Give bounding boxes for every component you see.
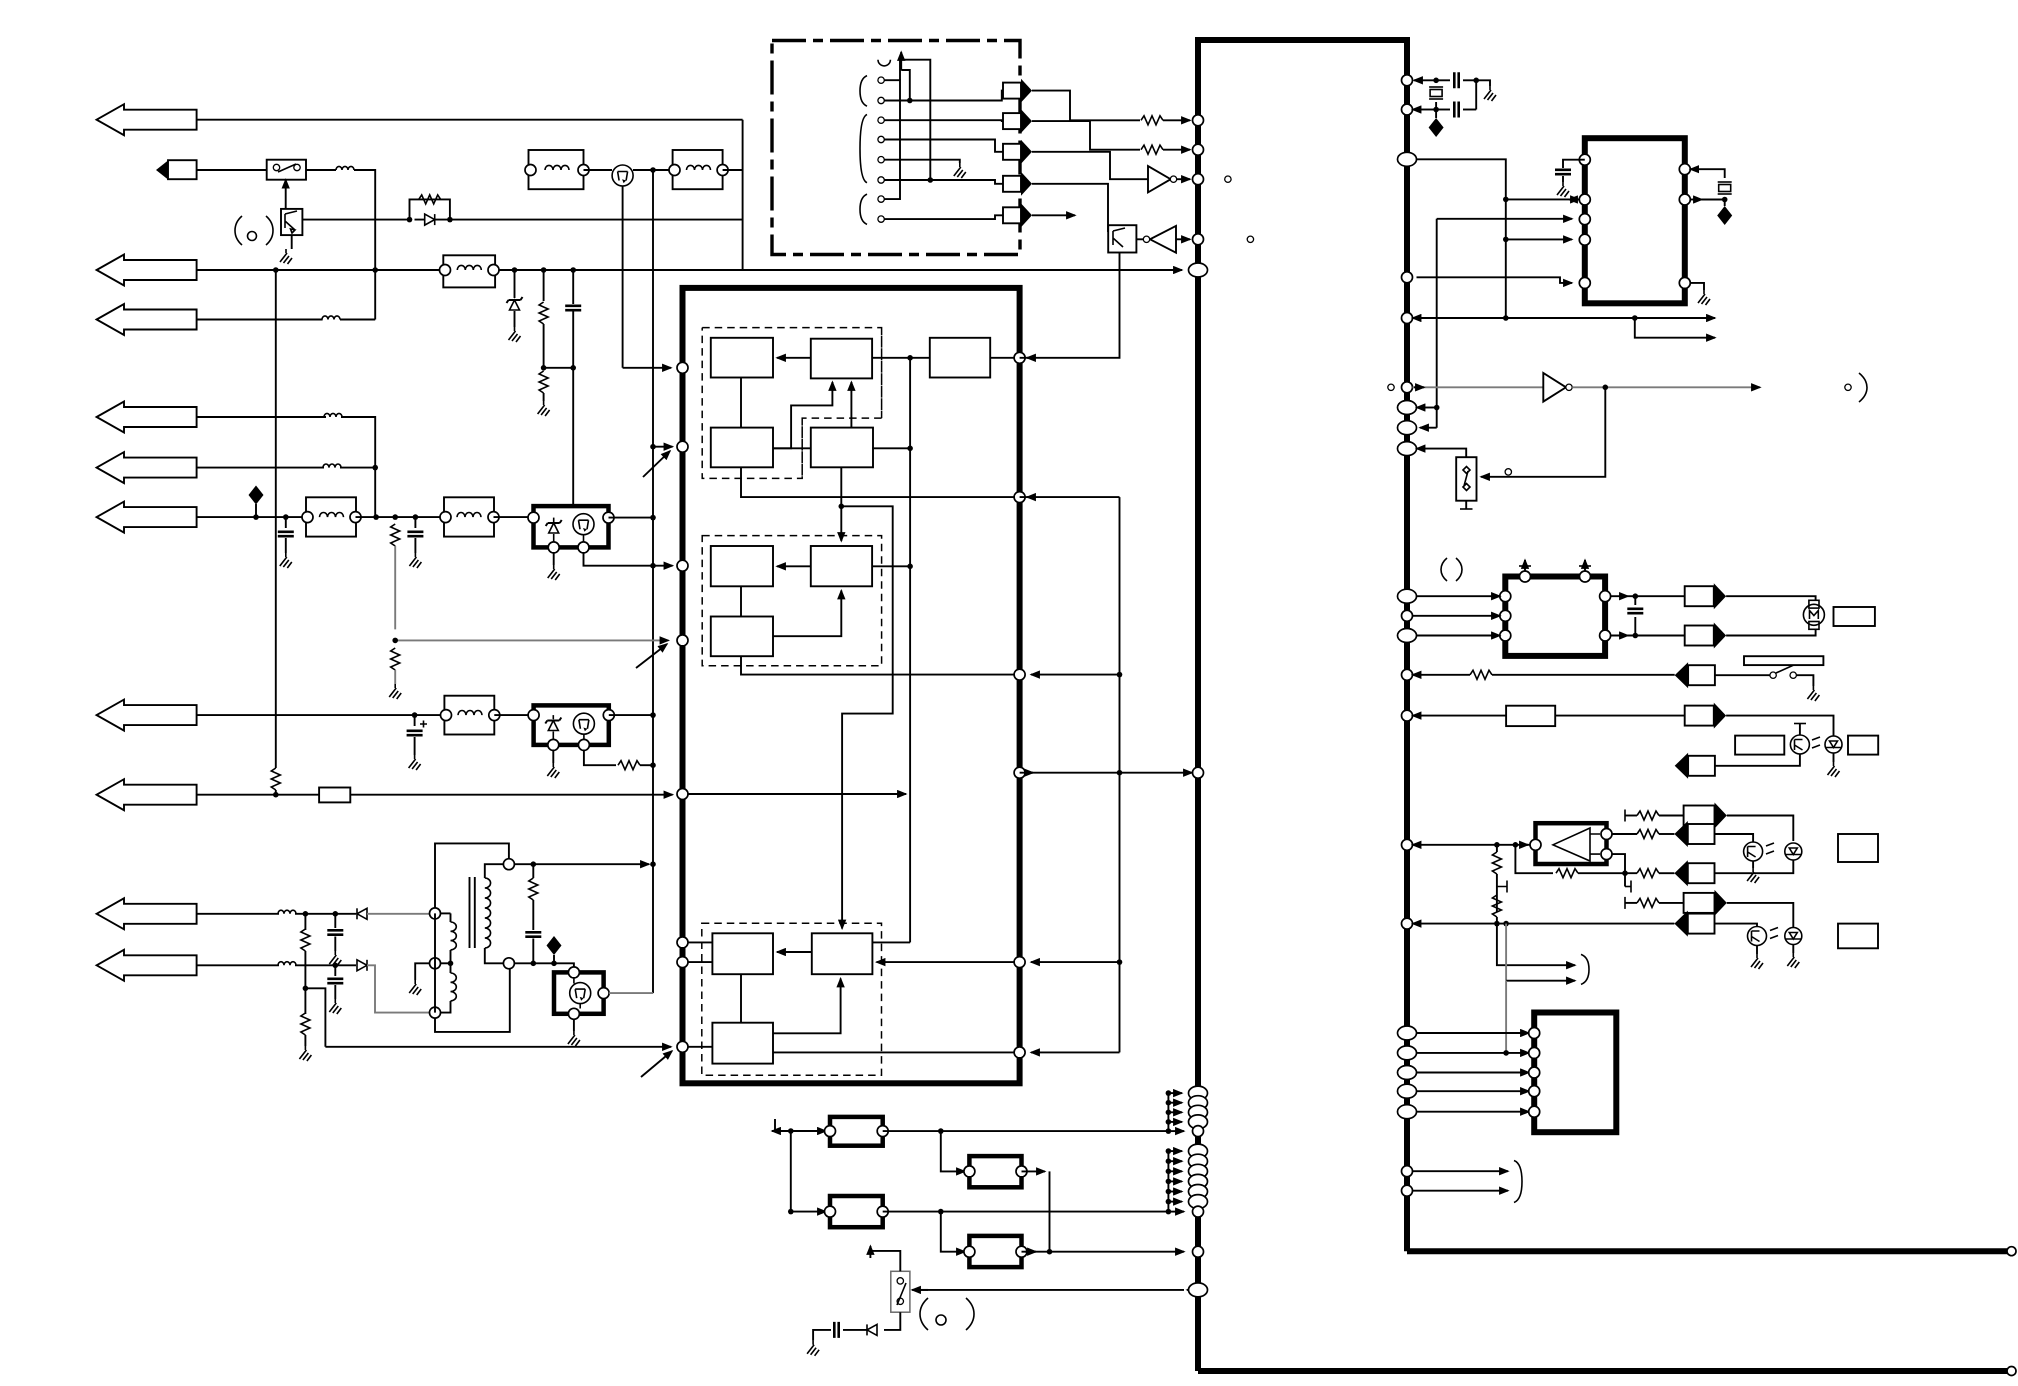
wire J3 row with inductor L2 — [197, 319, 323, 321]
connector arrow A4 (right) — [1685, 706, 1714, 726]
wire Q2 to junction x653 — [633, 169, 673, 171]
wire diode D1 to bus x742 — [450, 219, 743, 221]
diode D5 — [357, 908, 367, 919]
wire S2 top to supply tick — [870, 1251, 900, 1271]
line filter FL4 — [306, 497, 356, 536]
dashed group 2 boundary — [702, 536, 881, 666]
crystal X1 circuit — [1414, 79, 1436, 81]
divider chain x1497 — [1496, 845, 1498, 852]
primary coil 2 — [451, 973, 457, 1001]
U1 right pin 924 — [1402, 918, 1413, 929]
wire tuner arrow1 to IF resistor row — [1032, 91, 1140, 121]
wire pin4 out — [884, 140, 1003, 152]
cap C10 — [1436, 109, 1450, 111]
wire J5 row with inductor L4 — [197, 467, 324, 469]
block E — [930, 338, 990, 378]
capacitor C3 to ground — [414, 517, 416, 528]
right pin 772 — [1014, 767, 1025, 778]
cluster A branch 2 — [1168, 1092, 1182, 1094]
wire pin3 out — [884, 119, 1003, 122]
connector arrow M- — [1685, 626, 1714, 646]
left pin 447 — [677, 441, 688, 452]
connector arrow J5 — [97, 452, 197, 483]
tuner output arrow 1 — [1003, 83, 1021, 99]
comparator U9 box — [1536, 823, 1607, 864]
wire J6 luminance row — [197, 516, 306, 518]
transformer core — [470, 877, 475, 948]
transformer T1 primary pins — [430, 908, 441, 919]
connector pin 3 — [878, 117, 884, 123]
connector arrow M+ — [1685, 586, 1714, 606]
secondary coil — [485, 878, 491, 948]
wire channel to mid pin 962 — [1031, 961, 1120, 963]
label (o ) — [920, 1298, 928, 1330]
line filter FL6 — [444, 696, 494, 735]
wire J9 AC row — [197, 913, 279, 915]
right pin 674 — [1014, 669, 1025, 680]
dashed group 3 boundary — [702, 923, 882, 1075]
inductor L1 after switch — [306, 169, 336, 171]
dashed group 1 boundary — [702, 328, 881, 479]
U1 left pin 239 — [1193, 234, 1204, 245]
resistor R4 — [1141, 116, 1163, 125]
U6 left pin 199 — [1579, 194, 1590, 205]
wire tuner arrow5 short — [1032, 214, 1075, 216]
supply diamond marker — [249, 486, 264, 505]
wire K to J — [773, 979, 841, 1034]
wire node to Q5 top pin — [554, 963, 574, 967]
connector arrow J7 — [97, 700, 197, 731]
wire A3 to cassette switch S4 — [1715, 674, 1770, 676]
feedback row 873 — [1515, 845, 1553, 873]
wire D top to B — [850, 382, 852, 428]
U6 left pin 283 — [1579, 277, 1590, 288]
resistor R9 on rail x276 — [271, 768, 280, 790]
light arrows 3 — [1770, 928, 1778, 939]
switch S1 — [267, 160, 306, 180]
resistor R14 — [1556, 869, 1578, 878]
floating circle by S3 — [1505, 469, 1511, 475]
U1 right pin 1072 — [1398, 1066, 1417, 1080]
brace group 3 — [860, 194, 867, 224]
PT3 — [1748, 927, 1767, 946]
ground at C8 — [807, 1341, 819, 1356]
connector pin 6 — [878, 177, 884, 183]
left pin 794 — [677, 789, 688, 800]
wire B to A — [777, 357, 811, 359]
brace group 2 — [860, 115, 867, 183]
U6 left pin 240 — [1579, 234, 1590, 245]
wire I to left pins — [683, 942, 713, 962]
diode D7 — [867, 1324, 877, 1335]
U1 right pin 716 — [1402, 710, 1413, 721]
wire D out to vertical x910 — [872, 447, 910, 449]
wire J10 AC row — [197, 964, 279, 966]
cluster B branch 3 — [1168, 1170, 1182, 1172]
gray wire D6 to transformer bottom pin — [367, 965, 432, 1012]
wire from J1 to node at x742 — [197, 119, 743, 121]
delay box DL2 — [1506, 706, 1555, 726]
left pin 640 — [677, 635, 688, 646]
adjust arrow at pin 640 — [636, 644, 667, 668]
U1 right pin 387 — [1402, 382, 1413, 393]
capacitor C7 snubber — [525, 932, 541, 936]
wire P2 out long line — [883, 1211, 1169, 1213]
U9 minus input jog — [1612, 854, 1625, 873]
resistor R5 — [1141, 145, 1163, 154]
label parens at U8 — [1441, 558, 1447, 581]
PT2 — [1744, 842, 1763, 861]
transformer T1 primary link — [434, 913, 436, 1012]
U6 left pin 160 — [1579, 154, 1590, 165]
bottom bus line right — [1407, 1248, 2008, 1254]
U1 right pin 596 — [1398, 589, 1417, 603]
U1 right pin 616 — [1402, 610, 1413, 621]
U8 right pins — [1600, 591, 1611, 602]
supply tick row 816 — [1625, 815, 1637, 817]
ground tuner — [954, 163, 966, 178]
wire J8 switched supply row — [197, 794, 320, 796]
floating circle by pin 387 — [1388, 384, 1394, 390]
wire pin2 out — [884, 91, 1003, 101]
connector arrow J6 — [97, 502, 197, 533]
wire S2 to IC pin 1292 — [914, 1289, 1184, 1291]
U1 right pin 449 — [1398, 442, 1417, 456]
U1 right pin 635 — [1398, 629, 1417, 643]
wire secondary bottom to Q5 block — [514, 962, 554, 964]
connector arrow J11 (solid head) — [156, 161, 168, 180]
connector arrow J10 — [97, 950, 197, 981]
reel sensor LED1 — [1825, 736, 1842, 753]
wire pin1 to bus — [884, 80, 900, 199]
label box right LED1 — [1848, 736, 1878, 755]
wire U6 199 out — [1690, 199, 1702, 201]
gray wire to mid box pin 640 — [395, 639, 668, 641]
right pin 497 — [1014, 492, 1025, 503]
mechanism IC U10 outline — [1534, 1013, 1616, 1133]
lower brace arrows — [1413, 1170, 1509, 1172]
gray wire Q5 out to rail x653 — [609, 992, 653, 994]
wire U1 407/428 pair — [1417, 407, 1429, 409]
wire G to H — [740, 586, 742, 616]
tuner output arrow 4 — [1003, 176, 1021, 192]
vertical x1505 link — [1505, 199, 1507, 318]
wire Q4 block out to rail — [609, 714, 653, 716]
wire Q2 collector down — [622, 186, 624, 368]
supply tick row 903 — [1625, 902, 1637, 904]
wire Q3 block out to rail x653 — [609, 517, 654, 519]
diode D1 — [425, 214, 435, 225]
ground crystal — [1484, 86, 1496, 101]
connector arrow A3 (black left) — [1675, 662, 1688, 688]
wire D node right jog down to J — [841, 506, 892, 928]
wire pin8 out — [884, 215, 1003, 219]
supply diamond below X2 — [1724, 200, 1726, 207]
buffer U2 triangle — [1148, 166, 1171, 192]
bus end circle — [2007, 1247, 2016, 1256]
wire channel to mid pin 497 — [1020, 496, 1120, 498]
wire J7 supply row — [197, 714, 445, 716]
cluster B feeder bus — [1167, 1151, 1169, 1212]
label box left PT1 — [1735, 736, 1784, 755]
brace symbol — [1581, 954, 1589, 984]
wire C bottom row to right pin — [741, 467, 1020, 497]
junction dots on video line — [512, 267, 518, 273]
block C — [711, 428, 773, 468]
zener D2 to ground — [514, 270, 516, 298]
switch S3 box — [1456, 457, 1476, 501]
wire A8 to LED2 bottom — [1715, 860, 1794, 873]
boxed inductor FL3 — [673, 150, 723, 189]
left pin 368 — [677, 362, 688, 373]
wire H to F — [773, 591, 841, 637]
left pin 566 — [677, 560, 688, 571]
block I — [712, 933, 773, 974]
gray buffer output — [1572, 386, 1605, 388]
cluster B branch 4 — [1168, 1180, 1182, 1182]
connector arrow A5 (black left) — [1675, 753, 1688, 779]
left pin 1047 — [677, 1041, 688, 1052]
tuner output arrow 2 — [1003, 113, 1021, 129]
wire L1 to vertical x375 — [354, 170, 375, 320]
wire P1 line down to P3 — [941, 1131, 965, 1171]
wire D to F arrow — [840, 506, 842, 541]
U1 right pin 675 — [1402, 669, 1413, 680]
connector pin 4 — [878, 136, 884, 142]
tuner output arrow 5 — [1003, 207, 1021, 223]
wire U9 out to R13 — [1612, 833, 1637, 835]
wire Q4 emitter via resistor R8 to rail — [584, 751, 616, 766]
cluster A branch 4 — [1168, 1111, 1182, 1113]
light arrows — [1812, 737, 1820, 748]
block K — [712, 1023, 773, 1064]
wire left pin 794 into bus — [688, 793, 906, 795]
U1 right pin 1033 — [1398, 1026, 1417, 1040]
wire Q3 emitter to mid box pin 566 — [584, 553, 673, 566]
supply diamond below crystal — [1429, 118, 1444, 137]
block B — [811, 339, 872, 379]
label box group3 — [1838, 834, 1878, 862]
wire C1 node down — [572, 368, 574, 506]
capacitor C2 to ground — [285, 517, 287, 528]
U1 right pin 407 — [1398, 401, 1417, 415]
U6 left pin 219 — [1579, 214, 1590, 225]
wire top jog to pin6 line — [900, 60, 930, 180]
floating circle b — [1247, 236, 1253, 242]
wire A6 to LED2 — [1727, 816, 1794, 842]
U1 left pin 270 — [1189, 263, 1208, 277]
resistor R6 (gray drop) — [391, 524, 400, 546]
long bus to mid box pin — [325, 1046, 671, 1048]
wire A to C — [740, 378, 742, 428]
U1 right pin 428 — [1398, 421, 1417, 435]
wire U1 845 row — [1413, 844, 1532, 846]
wire D bottom chain — [840, 467, 842, 506]
U1 left pin 772 — [1193, 767, 1204, 778]
wire FL5 to Q block 1 — [494, 516, 534, 518]
U6 right pin 283 — [1679, 277, 1690, 288]
label (o) — [235, 216, 242, 245]
ground S4 — [1807, 686, 1819, 701]
U1 right pin 1053 — [1398, 1046, 1417, 1060]
ground U6 283 — [1690, 283, 1704, 290]
wire J4 row with inductor L3 — [197, 416, 326, 418]
wire A10 to PT3 — [1715, 924, 1758, 927]
connector arrow J2 (video out) — [97, 255, 197, 286]
wire B out to block E — [872, 357, 930, 359]
connector arrow J9 — [97, 898, 197, 929]
junction video line / x375 — [372, 267, 378, 273]
connector arrow A6 (right) — [1684, 806, 1715, 826]
light arrows 2 — [1766, 843, 1774, 854]
wire P3 out to drop — [1022, 1170, 1046, 1172]
cluster A feeder bus — [1167, 1093, 1169, 1131]
adjust arrow at pin 447 — [643, 451, 670, 477]
wire U1 924 row — [1413, 923, 1675, 925]
U1 left pin 179 — [1193, 174, 1204, 185]
wire U1 159 to U6 — [1417, 159, 1580, 199]
filter box P3 (bold) — [969, 1156, 1021, 1187]
block H — [711, 617, 773, 657]
U1 right pin 159 — [1398, 152, 1417, 166]
wire U1 716 row — [1413, 715, 1423, 717]
transistor Q3 — [573, 514, 594, 535]
resistor R15 — [1637, 869, 1659, 878]
cluster B branch 1 — [1168, 1150, 1182, 1152]
outer loop bottom — [435, 969, 510, 1032]
wire secondary top to right (B+ line) — [514, 863, 649, 865]
U6 right pin 199 — [1679, 194, 1690, 205]
brace output wires — [1497, 924, 1575, 966]
wire Q2 collector line to mid box pin — [623, 367, 671, 369]
lower brace — [1514, 1161, 1522, 1203]
filter box P4 (bold) — [969, 1236, 1021, 1267]
wire F to G — [777, 565, 811, 567]
wire C to B feedback — [773, 382, 832, 448]
connector arrow J4 — [97, 402, 197, 433]
vertical link P1-P2 — [790, 1131, 792, 1212]
wire mid box pin 358 to channel — [1020, 252, 1120, 358]
U1 right pin 318 — [1402, 313, 1413, 324]
ground below Q5 — [573, 1019, 575, 1031]
capacitor C6 to ground — [334, 965, 336, 976]
divider rail x305 — [304, 914, 306, 930]
U1 left pin 120 — [1193, 115, 1204, 126]
supply diamond at Q5 — [547, 936, 562, 955]
U1 right pin 80 — [1402, 75, 1413, 86]
channel vertical x1119 — [1119, 497, 1121, 1052]
supply rail x653 vertical — [652, 170, 654, 993]
electrolytic cap C4 — [414, 715, 416, 726]
wire A4 to reel sensor — [1726, 716, 1833, 736]
right pin 1052 — [1014, 1047, 1025, 1058]
wire channel to mid pin 674 — [1031, 674, 1120, 676]
boxed inductor FL2 top right — [529, 150, 584, 189]
wire to U6 pin 219 — [1437, 218, 1572, 220]
label box group4 — [1838, 924, 1878, 949]
U1 right pin 1191 — [1402, 1185, 1413, 1196]
U1 right pin 845 — [1402, 839, 1413, 850]
block F — [811, 546, 872, 586]
connector pin 1 — [878, 77, 884, 83]
cluster B branch 2 — [1168, 1160, 1182, 1162]
cluster B branch 6 — [1168, 1201, 1182, 1203]
connector pin 7 — [878, 196, 884, 202]
servo IC U6 outline — [1585, 138, 1685, 303]
tuner unit dash-dot boundary — [772, 41, 1020, 255]
ground Q3 block — [553, 553, 555, 565]
wire U8 out bottom — [1611, 635, 1628, 637]
connector arrow J8 — [97, 779, 197, 810]
wire pin5 to ground — [884, 160, 960, 163]
LED2 — [1785, 843, 1802, 860]
connector pin 2 — [878, 97, 884, 103]
diode D6 — [357, 960, 367, 971]
U1 cluster B pins — [1189, 1144, 1208, 1158]
wire switch control from opto Q1 — [285, 180, 287, 209]
wire DL1 to mid box pin 794 — [350, 794, 672, 796]
video-chroma block U5 outline — [683, 288, 1020, 1083]
U1 right pin 277 — [1402, 272, 1413, 283]
capacitor C8 — [834, 1322, 838, 1338]
transistor Q5 — [570, 983, 591, 1004]
wire P2 line down to P4 — [941, 1212, 965, 1252]
arrowhead out of U6 pin — [1569, 199, 1585, 201]
wire into P1 — [791, 1130, 826, 1132]
wire U8 out top — [1611, 595, 1628, 597]
connector pin 5 — [878, 157, 884, 163]
antenna arrow up — [900, 52, 902, 70]
connector arrow A9 (right) — [1684, 893, 1715, 913]
resistor R11 — [1470, 670, 1492, 679]
capstan motor M1 — [1809, 600, 1819, 608]
brace group 1 — [860, 76, 867, 107]
left pin 942 — [677, 937, 688, 948]
wire K to left pin — [683, 1046, 713, 1048]
right pin 358 — [1014, 352, 1025, 363]
crystal X2 — [1718, 182, 1732, 194]
wire A7 to PT2 — [1715, 834, 1754, 842]
connector arrow A10 (black left) — [1674, 911, 1687, 937]
wire FL6 to Q block 2 — [494, 714, 533, 716]
wire P4 out to IC pin — [1022, 1251, 1185, 1253]
U8 top pins — [1520, 571, 1531, 582]
connector pin 8 — [878, 216, 884, 222]
junction video line / x276 rail — [273, 267, 279, 273]
wire H bottom to right pin 674 — [741, 656, 1020, 674]
resistor R7 on gray rail — [391, 648, 400, 670]
connector arrow A8 (black left) — [1674, 860, 1687, 886]
adjust arrow at pin 1047 — [641, 1051, 672, 1077]
U1 right pin 1112 — [1398, 1105, 1417, 1119]
ground stub at mid pin — [415, 963, 429, 980]
transistor block Q3 (bold) — [534, 506, 609, 547]
caps common leg — [1476, 80, 1490, 109]
U1 left pin 150 — [1193, 144, 1204, 155]
transistor block Q5 (bold) — [554, 972, 604, 1013]
buffer U7 — [1543, 373, 1566, 402]
wire into P2 — [791, 1211, 826, 1213]
resistor R12 — [1637, 811, 1659, 820]
wire FL4 to FL5 — [356, 516, 445, 518]
secondary top wire — [485, 864, 504, 878]
U1 left pin 1252 — [1193, 1246, 1204, 1257]
wire E to right pin — [990, 357, 1019, 359]
transistor Q2 — [612, 165, 633, 186]
U10 pins — [1529, 1028, 1540, 1039]
connector arrow A7 (black left) — [1674, 821, 1687, 847]
wire PT1 down to A5 — [1715, 754, 1800, 766]
